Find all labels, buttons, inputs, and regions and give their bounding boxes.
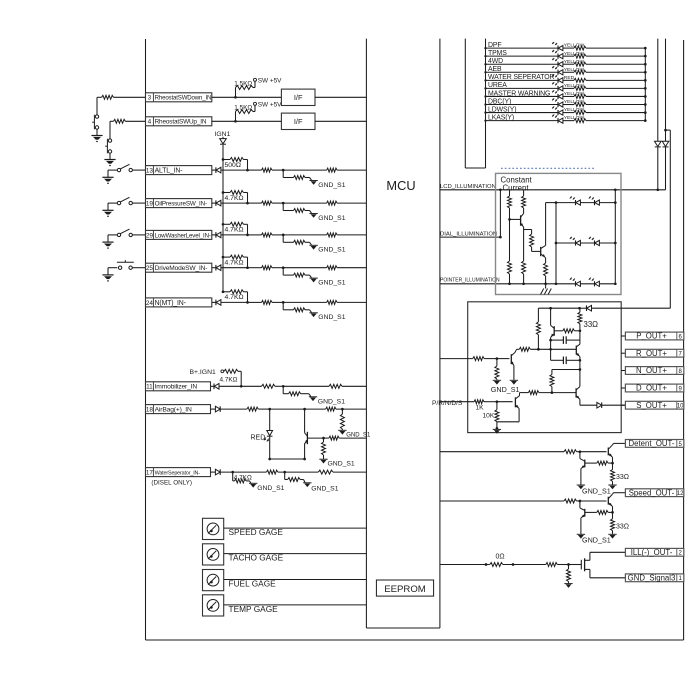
wire row29 to MCU	[337, 234, 366, 236]
wire QSpeed1 collector	[613, 493, 626, 494]
LED CC1a	[570, 196, 581, 205]
svg-text:ALTL_IN-: ALTL_IN-	[155, 168, 183, 175]
svg-text:N_OUT+: N_OUT+	[636, 366, 667, 375]
wire warn row WATER SEPERATOR	[484, 79, 558, 81]
svg-text:FUEL GAGE: FUEL GAGE	[229, 578, 277, 588]
diode D17	[211, 469, 267, 475]
resistor RSpeedb	[597, 510, 613, 514]
label color YELLOW	[564, 59, 585, 65]
transistor QP5	[515, 393, 519, 410]
LED CC2b	[589, 237, 600, 246]
svg-text:ILL(-)_OUT-: ILL(-)_OUT-	[631, 548, 673, 557]
ground GND_S1 row17b	[303, 483, 339, 493]
wire warn WATER SEPERATOR right	[586, 79, 647, 82]
LED CC3b	[589, 278, 600, 287]
wire source to GND box	[590, 577, 626, 579]
svg-text:1K: 1K	[476, 404, 485, 411]
label color YELLOW	[564, 107, 585, 113]
wire bottom rail	[146, 639, 684, 641]
ground chassis CC	[541, 284, 552, 295]
svg-text:4.7KΩ: 4.7KΩ	[220, 376, 238, 383]
switch SW19	[117, 197, 145, 205]
wire row3 box to IF	[212, 96, 282, 99]
ground GND_S1 row18	[338, 430, 371, 438]
svg-text:P/R/N/D/S: P/R/N/D/S	[432, 400, 463, 407]
resistor 10K	[483, 402, 499, 430]
ground GND_S1 Q18	[319, 459, 355, 467]
resistor 33ohm Speed	[611, 519, 630, 534]
svg-text:GND_S1: GND_S1	[318, 247, 345, 254]
wire QP3 collector	[517, 347, 531, 351]
wire row19 main	[248, 202, 262, 204]
label LCD_ILLUMINATION	[440, 184, 496, 190]
wire Detent base	[580, 451, 607, 453]
resistor RILLc pulldown	[567, 565, 571, 584]
label color YELLOW	[564, 43, 585, 49]
diode D25	[212, 265, 248, 271]
ground row25	[102, 275, 113, 281]
resistor pull-up 4.7KΩ row24	[222, 290, 249, 304]
resistor RCC1	[508, 190, 512, 221]
resistor RDetentb	[597, 461, 613, 465]
LED LKAS(Y)	[552, 114, 563, 123]
wire IGN1 rail	[222, 145, 224, 292]
node box N_OUT+ pin8	[625, 366, 683, 375]
wire warn WATER SEPERATOR mid	[563, 79, 574, 81]
wire TEMP to MCU	[224, 604, 367, 606]
wire row3 left	[97, 96, 146, 98]
LED DPF	[552, 42, 563, 51]
wire row3 down	[96, 97, 98, 115]
wire row18 junctions	[270, 408, 326, 411]
wire LED bus left	[555, 203, 558, 286]
wire row4 switch to ground	[109, 153, 111, 159]
wire stub R_OUT+	[621, 352, 625, 354]
node box pin3	[146, 93, 212, 102]
svg-text:Immobilizer_IN: Immobilizer_IN	[155, 384, 198, 391]
ground GND_S1 Speeda	[608, 534, 616, 538]
wire warn AEB right	[586, 71, 647, 74]
label MASTER WARNING	[488, 90, 550, 97]
node box pin11	[146, 382, 211, 391]
svg-text:4: 4	[148, 119, 152, 126]
wire LED row3	[556, 283, 615, 285]
svg-text:RED: RED	[251, 435, 266, 442]
resistor RCC4	[508, 219, 512, 283]
wire warn 4WD mid	[563, 63, 574, 65]
wire SPEED to MCU	[224, 527, 367, 529]
wire DIAL_ILLUMINATION	[440, 236, 502, 239]
node box pin24	[146, 298, 212, 307]
wire row13 to ground	[108, 170, 117, 177]
wire stub N_OUT+	[621, 370, 625, 372]
wire row3 IF to MCU	[315, 96, 366, 98]
svg-text:4.7KΩ: 4.7KΩ	[225, 294, 244, 301]
wire Speed drive	[440, 500, 564, 502]
svg-text:GND_S1: GND_S1	[346, 432, 371, 438]
wire rail seg1	[579, 331, 581, 344]
svg-text:4.7KΩ: 4.7KΩ	[225, 260, 244, 267]
wire LED row1	[556, 202, 615, 204]
svg-text:GND_Signal3: GND_Signal3	[628, 573, 676, 582]
wire QP5 base	[497, 401, 513, 403]
resistor R29d	[283, 233, 337, 237]
svg-text:GND_S1: GND_S1	[582, 536, 611, 545]
LED CC1b	[589, 196, 600, 205]
wire warn row 4WD	[484, 63, 558, 65]
label UREA	[488, 82, 507, 89]
diode D24	[212, 300, 248, 306]
wire PRNDS in	[440, 401, 474, 403]
resistor warn MASTER WARNING	[574, 94, 586, 98]
svg-text:GND_S1: GND_S1	[311, 485, 338, 492]
svg-text:TACHO GAGE: TACHO GAGE	[229, 553, 284, 563]
svg-text:GND_S1: GND_S1	[328, 461, 355, 468]
wire warn TPMS mid	[563, 55, 574, 57]
resistor 4.7K row11	[220, 369, 243, 387]
wire Speed base	[580, 500, 607, 502]
svg-text:4.7KΩ: 4.7KΩ	[225, 195, 244, 202]
wire warn row TPMS	[484, 55, 558, 57]
wire warn DPF right	[586, 47, 647, 50]
node IGN1	[215, 131, 231, 138]
resistor warn UREA	[574, 86, 586, 90]
transistor QSpeed1	[608, 494, 613, 507]
node box pin4	[146, 117, 212, 126]
transistor QDetent1	[608, 445, 613, 458]
resistor warn 4WD	[574, 62, 586, 66]
resistor pull-up 4.7KΩ row29	[222, 222, 249, 236]
svg-text:SW +5V: SW +5V	[258, 102, 282, 109]
label TPMS	[488, 50, 507, 57]
wire DIAL link	[499, 190, 501, 237]
wire row4 down	[109, 121, 111, 139]
resistor R17a 4.7K to GND_S1	[233, 472, 252, 483]
svg-text:LKAS(Y): LKAS(Y)	[488, 114, 514, 121]
node box R_OUT+ pin7	[625, 349, 683, 358]
wire warn LKAS(Y) right	[586, 119, 647, 122]
wire stub S_OUT+	[621, 404, 625, 406]
op-amp IF3	[281, 89, 315, 105]
wire QP3 emitter	[513, 365, 515, 380]
diode D13	[212, 167, 248, 173]
resistor R24d	[283, 300, 337, 304]
wire warn 4WD right	[586, 63, 647, 66]
LED MASTER WARNING	[552, 90, 563, 99]
wire drain to ILL box	[590, 551, 626, 553]
label TACHO GAGE	[229, 553, 284, 563]
wire warn AEB mid	[563, 71, 574, 73]
wire right border	[683, 40, 685, 640]
resistor RP7 to GND	[495, 359, 499, 380]
transistor QP4	[573, 387, 580, 400]
wire QDetent1 collector	[613, 443, 626, 444]
node box pin29	[146, 230, 212, 239]
svg-text:S_OUT+: S_OUT+	[636, 401, 667, 410]
wire row25 main	[248, 267, 262, 269]
wire rail left	[538, 307, 579, 322]
resistor warn DBC(Y)	[574, 103, 586, 107]
capacitor C2	[551, 340, 580, 364]
diode DB	[662, 141, 669, 147]
gauge FUEL	[203, 570, 224, 591]
wire QP3 base	[497, 358, 510, 360]
svg-text:D_OUT+: D_OUT+	[636, 384, 667, 393]
wire Q18 base	[307, 437, 329, 440]
wire rail seg3	[579, 360, 582, 371]
resistor RCC5	[522, 230, 526, 284]
resistor R19b	[262, 201, 272, 205]
wire warn UREA mid	[563, 87, 574, 89]
wire row24 to junction	[272, 301, 285, 304]
wire vert B lower	[665, 147, 667, 190]
wire TACHO to MCU	[224, 553, 367, 555]
wire PRNDS top rail	[592, 307, 671, 309]
ground GND_S1 row11	[309, 397, 345, 406]
node PRNDS box	[468, 302, 622, 433]
svg-text:GND_S1: GND_S1	[318, 314, 345, 321]
wire QSpeed1 emitter	[611, 507, 614, 519]
LED CC3a	[570, 278, 581, 287]
resistor R29c to GND_S1	[283, 235, 311, 245]
transistor Q18	[304, 409, 308, 459]
diode D29	[212, 232, 248, 238]
LED 4WD	[552, 58, 563, 67]
svg-text:R_OUT+: R_OUT+	[636, 349, 667, 358]
svg-text:DBC(Y): DBC(Y)	[488, 98, 511, 105]
resistor R13b	[262, 168, 272, 172]
node box GND_Signal3 pin1	[625, 573, 683, 582]
wire row25 to ground	[108, 268, 117, 275]
op-amp U-MCU	[366, 39, 440, 628]
svg-text:RheostatSWUp_IN: RheostatSWUp_IN	[155, 119, 207, 126]
label DBC(Y)	[488, 98, 511, 105]
svg-text:TPMS: TPMS	[488, 50, 507, 57]
label WATER SEPERATOR	[488, 74, 555, 81]
svg-text:500Ω: 500Ω	[225, 162, 241, 169]
diode D18	[211, 406, 247, 412]
resistor 0ohm	[490, 554, 546, 567]
node box P_OUT+ pin6	[625, 332, 683, 341]
wire stub D_OUT+	[621, 387, 625, 389]
resistor RP5	[528, 391, 573, 395]
ground GND_S1 Detenta	[608, 485, 616, 489]
label SPEED GAGE	[229, 527, 284, 537]
wire FUEL to MCU	[224, 579, 367, 581]
wire bus jog	[465, 39, 485, 168]
diode D-PR1	[578, 305, 591, 311]
resistor warn LKAS(Y)	[574, 119, 586, 123]
resistor R18base	[329, 436, 367, 440]
node box pin17	[146, 468, 211, 477]
ground GND_S1 P1	[493, 380, 501, 384]
transistor QSpeed2	[580, 501, 585, 534]
resistor R3a	[102, 95, 114, 99]
svg-text:UREA: UREA	[488, 82, 507, 89]
resistor 1.5K row4	[234, 105, 255, 122]
LED TPMS	[552, 50, 563, 59]
svg-text:OilPressureSW_IN-: OilPressureSW_IN-	[155, 201, 207, 208]
wire gate	[569, 564, 582, 566]
resistor warn TPMS	[574, 54, 586, 58]
transistor QCC2	[541, 245, 547, 258]
wire warn TPMS right	[586, 55, 647, 58]
wire warn row AEB	[484, 71, 558, 73]
ground GND_S1 P2	[491, 380, 520, 394]
svg-text:0Ω: 0Ω	[496, 554, 505, 561]
resistor 33ohm RP2	[578, 308, 598, 332]
wire vert A	[657, 39, 659, 142]
resistor R24b	[262, 300, 272, 304]
label color YELLOW	[564, 115, 585, 121]
label POINTER_ILLUMINATION	[440, 278, 500, 284]
wire row25 to junction	[272, 266, 285, 269]
resistor R29b	[262, 233, 272, 237]
node box D_OUT+ pin9	[625, 384, 683, 393]
svg-text:33Ω: 33Ω	[616, 524, 629, 531]
gauge TEMP	[203, 595, 224, 616]
wire warn row MASTER WARNING	[484, 95, 558, 97]
resistor RSpeeda	[564, 499, 581, 503]
svg-text:11: 11	[146, 384, 153, 391]
resistor R18e to GND_S1	[322, 438, 326, 459]
wire row13 to MCU	[337, 169, 366, 171]
wire row4 box to IF	[212, 120, 282, 123]
svg-text:3: 3	[148, 95, 152, 102]
svg-text:WaterSeperator_IN-: WaterSeperator_IN-	[155, 470, 201, 476]
ground row4	[104, 160, 115, 166]
label DPF	[488, 42, 501, 49]
wire bus left vertical	[485, 39, 487, 168]
wire warn row UREA	[484, 87, 558, 89]
ground GND_S1 row25	[309, 278, 345, 286]
transistor QCC1	[510, 214, 525, 230]
wire warn row DBC(Y)	[484, 103, 558, 105]
ground row19	[102, 210, 113, 216]
ground row3	[91, 136, 102, 142]
resistor R17b	[266, 470, 318, 474]
power SW+5V row4	[254, 102, 283, 109]
gauge SPEED	[203, 518, 224, 539]
resistor R11d	[283, 384, 366, 388]
label color YELLOW	[564, 99, 585, 105]
wire jog to PRNDS rail	[666, 130, 671, 308]
transistor M1 mosfet	[581, 552, 590, 578]
switch SW25	[117, 260, 146, 269]
resistor RCC2	[522, 190, 526, 214]
svg-text:AEB: AEB	[488, 66, 502, 73]
LED WATER SEPERATOR	[552, 74, 563, 83]
diode DA	[655, 141, 662, 147]
svg-text:POINTER_ILLUMINATION: POINTER_ILLUMINATION	[440, 278, 500, 284]
switch SW13	[117, 164, 145, 172]
wire warn MASTER WARNING right	[586, 95, 647, 98]
svg-text:(DISEL ONLY): (DISEL ONLY)	[151, 480, 192, 487]
label LDWS(Y)	[488, 106, 516, 113]
wire QCC1 emitter jog	[524, 230, 532, 235]
label color YELLOW	[564, 67, 585, 73]
wire row24 to MCU	[337, 301, 366, 303]
svg-text:I/F: I/F	[294, 93, 303, 102]
transistor QP2	[576, 344, 580, 357]
svg-text:GND_S1: GND_S1	[257, 485, 284, 492]
node Constant Current box	[496, 173, 622, 294]
resistor R13c to GND_S1	[283, 170, 311, 180]
wire row18 bottom	[270, 458, 306, 461]
svg-text:B+.IGN1: B+.IGN1	[190, 369, 216, 376]
LED DBC(Y)	[552, 98, 563, 107]
switch SW3	[92, 115, 99, 130]
resistor RP6	[473, 357, 499, 361]
wire warn row LKAS(Y)	[484, 119, 558, 121]
ground GND_S1 row24	[309, 313, 345, 321]
svg-text:1.5KΩ: 1.5KΩ	[234, 81, 252, 88]
resistor R18a	[247, 407, 271, 411]
label color YELLOW	[564, 83, 585, 89]
wire QDetent2 base	[585, 462, 597, 464]
svg-text:4WD: 4WD	[488, 58, 503, 65]
svg-text:18: 18	[146, 407, 154, 414]
wire vert A lower	[656, 147, 659, 191]
svg-text:4.7KΩ: 4.7KΩ	[225, 227, 244, 234]
svg-text:25: 25	[146, 265, 154, 272]
svg-text:MASTER WARNING: MASTER WARNING	[488, 90, 550, 97]
svg-text:33Ω: 33Ω	[616, 474, 629, 481]
resistor RILLb	[546, 563, 570, 567]
wire warn LDWS(Y) mid	[563, 112, 574, 114]
EEPROM U-EEPROM	[376, 580, 433, 596]
resistor R24c to GND_S1	[283, 302, 311, 312]
label 4WD	[488, 58, 503, 65]
svg-text:P_OUT+: P_OUT+	[636, 332, 667, 341]
svg-text:LowWasherLevel_IN-: LowWasherLevel_IN-	[155, 232, 211, 239]
wire ILL drive	[440, 563, 490, 566]
wire row24 main	[248, 301, 262, 303]
svg-text:DPF: DPF	[488, 42, 501, 49]
wire row19 to junction	[272, 202, 285, 205]
svg-text:RheostatSWDown_IN: RheostatSWDown_IN	[155, 95, 212, 102]
switch SW29	[117, 229, 145, 236]
ground GND_S1 Speedb	[577, 534, 611, 544]
wire LED row2	[556, 242, 615, 244]
svg-text:SW +5V: SW +5V	[258, 78, 282, 85]
resistor RCC3	[530, 234, 541, 251]
wire warn row DPF	[484, 47, 558, 49]
resistor R11b	[262, 384, 285, 388]
wire QCC2 collector	[546, 201, 558, 245]
resistor 1.5K row3	[234, 81, 255, 98]
LED AEB	[552, 66, 563, 75]
svg-text:GND_S1: GND_S1	[491, 385, 520, 394]
wire row4 IF to MCU	[315, 120, 366, 122]
svg-text:Detent_OUT-: Detent_OUT-	[629, 439, 675, 448]
resistor R4a	[114, 119, 126, 123]
transistor QP1	[549, 308, 554, 341]
wire row3 switch to ground	[96, 129, 98, 135]
node box pin25	[146, 263, 212, 272]
wire Detent drive	[440, 451, 564, 453]
resistor R13d	[283, 168, 337, 172]
wire warn DBC(Y) right	[586, 103, 647, 106]
svg-text:33Ω: 33Ω	[584, 320, 599, 329]
wire row29 to ground	[108, 235, 117, 242]
svg-text:SPEED GAGE: SPEED GAGE	[229, 527, 284, 537]
wire QP4 collector up	[579, 370, 581, 387]
wire MCU PRNDS drive	[440, 358, 473, 360]
resistor pull-up 4.7KΩ row19	[222, 191, 249, 205]
svg-text:MCU: MCU	[386, 178, 415, 193]
svg-text:10: 10	[677, 404, 684, 410]
